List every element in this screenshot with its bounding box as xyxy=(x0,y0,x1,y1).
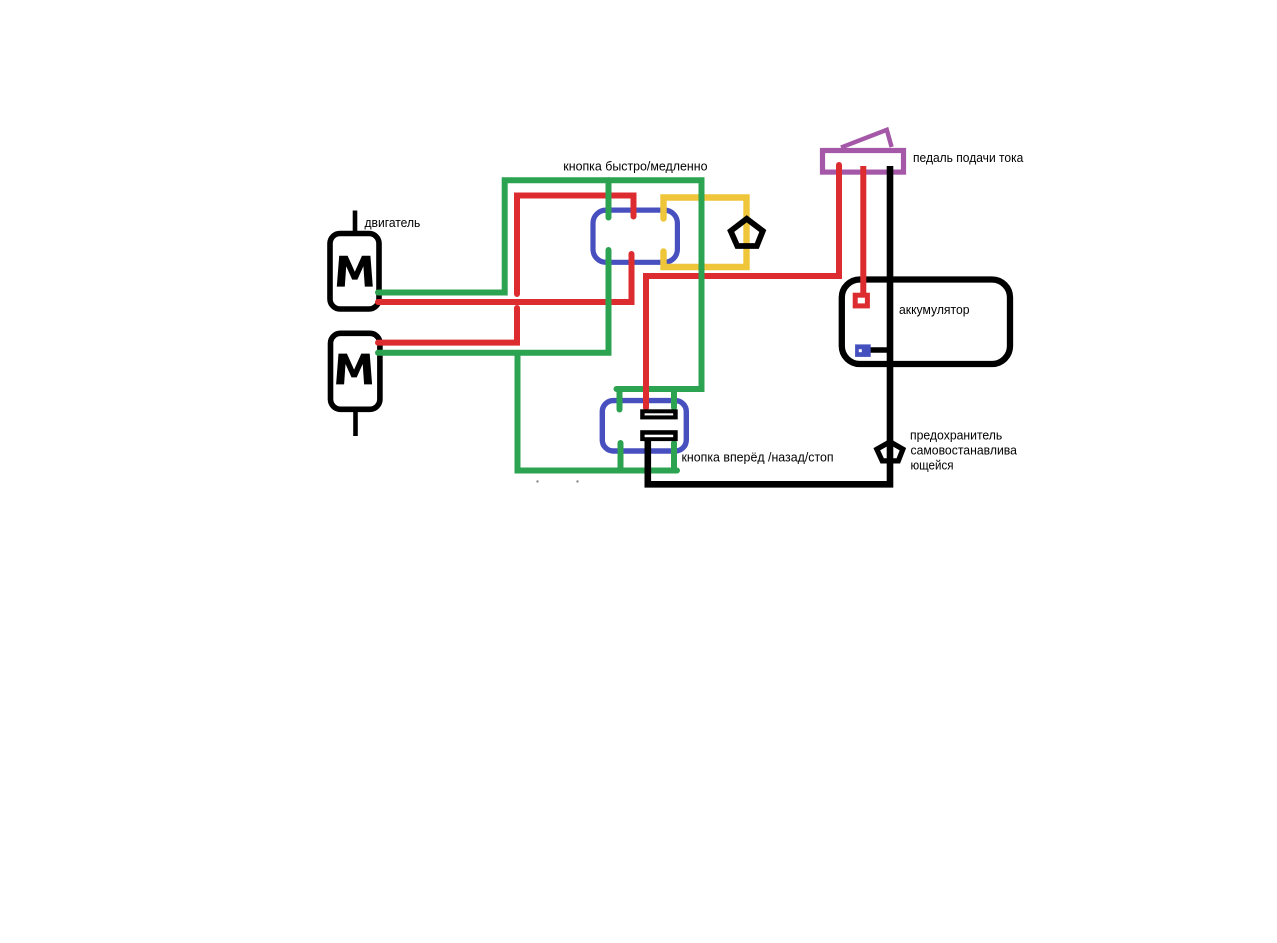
fuse pentagon F2 self-resetting xyxy=(877,442,903,461)
switch S1 body (кнопка быстро/медленно) xyxy=(593,210,677,262)
motor M2 body xyxy=(331,333,380,409)
green wire S1 bottom pin down to motor2 xyxy=(378,250,609,353)
green pin S2 top-right xyxy=(671,389,677,408)
svg-text:педаль подачи тока: педаль подачи тока xyxy=(913,150,1024,165)
motor M1 body xyxy=(330,234,379,310)
pedal lever arm xyxy=(841,130,892,148)
motor M1 top terminal stub xyxy=(353,211,358,234)
motor M2 letter M xyxy=(336,354,372,385)
svg-text:аккумулятор: аккумулятор xyxy=(899,302,970,317)
black wire pedal pin3 through battery to S2 xyxy=(648,166,890,484)
red wire overlay at S2 crossing xyxy=(643,380,649,408)
switch S2 rocker bar 1 xyxy=(640,409,678,419)
black wire battery minus jumper xyxy=(866,347,890,353)
green pin S2 bottom-left xyxy=(618,443,624,471)
svg-text:самовостанавлива: самовостанавлива xyxy=(911,443,1018,458)
svg-text:предохранитель: предохранитель xyxy=(910,428,1003,443)
battery body (аккумулятор) xyxy=(842,280,1010,365)
yellow wire loop S1 to fuse xyxy=(664,198,747,268)
green pin S2 bottom-right xyxy=(671,443,677,471)
red wire motor1 to S1 bottom pin xyxy=(378,254,632,302)
switch S2 rocker bar 1 slot xyxy=(645,413,674,415)
svg-text:двигатель: двигатель xyxy=(365,215,421,230)
svg-text:ющейся: ющейся xyxy=(911,458,954,473)
green wire motor1 up and across to S2 top rail xyxy=(378,180,702,389)
red wire riser to S1 top pin xyxy=(517,196,634,295)
green wire branch down to S2 bottom rail xyxy=(518,353,678,471)
switch S2 rocker bar 2 xyxy=(640,430,678,441)
fuse pentagon F1 on yellow loop xyxy=(731,219,763,246)
battery minus terminal (blue square) xyxy=(855,344,871,357)
switch S2 rocker bar 2 slot xyxy=(645,435,674,438)
red wire motor2 to junction, lower segment xyxy=(378,308,517,343)
red wire pedal pin2 to battery plus xyxy=(860,166,866,298)
green pin into S1 top xyxy=(606,180,612,217)
battery plus terminal (red square) xyxy=(855,295,867,306)
green pin S2 top-left xyxy=(617,389,623,410)
svg-text:кнопка быстро/медленно: кнопка быстро/медленно xyxy=(563,159,707,174)
motor M1 letter M xyxy=(337,256,373,287)
motor M2 bottom terminal stub xyxy=(353,410,358,437)
pedal body (педаль подачи тока) xyxy=(823,151,904,173)
stray mark dot1 xyxy=(536,480,538,482)
stray mark dot2 xyxy=(576,480,578,482)
svg-text:кнопка вперёд /назад/стоп: кнопка вперёд /назад/стоп xyxy=(682,450,834,465)
battery minus terminal white dot xyxy=(859,349,862,352)
red wire pedal pin1 to S2 top pin xyxy=(646,165,839,408)
switch S2 body (кнопка вперёд/назад/стоп) xyxy=(602,401,686,451)
